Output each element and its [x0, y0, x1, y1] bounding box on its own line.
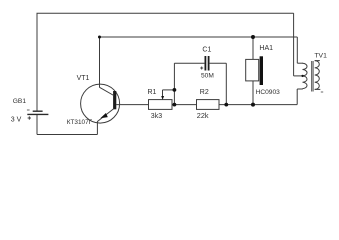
svg-text:GB1: GB1	[13, 98, 27, 105]
wire base to R1	[116, 104, 148, 106]
wire C1 branch right	[210, 62, 227, 64]
wire R1 to R2	[172, 104, 197, 106]
wire emitter vertical	[96, 121, 98, 134]
svg-text:R1: R1	[148, 89, 157, 96]
battery GB1	[27, 110, 49, 120]
secondary bottom stub	[315, 88, 321, 90]
wire second rail	[100, 36, 298, 38]
resistor R1	[149, 90, 173, 110]
resistor R2	[197, 100, 220, 110]
node HA1 top junction	[251, 35, 255, 39]
wire right drop from top rail	[293, 13, 295, 76]
earphone HA1	[246, 56, 263, 85]
secondary winding	[315, 61, 320, 90]
wire top rail	[37, 12, 294, 14]
R1 wiper arrow	[162, 90, 164, 97]
transistor VT1	[81, 84, 120, 123]
wire C1 branch left	[174, 62, 204, 64]
collector diagonal	[100, 87, 114, 95]
secondary polarity dash	[321, 91, 323, 93]
svg-text:КТ3107Г: КТ3107Г	[67, 119, 93, 126]
svg-text:50M: 50M	[201, 72, 214, 79]
transformer TV1	[303, 61, 324, 92]
svg-text:3 V: 3 V	[11, 116, 22, 123]
svg-text:HA1: HA1	[259, 45, 273, 52]
emitter arrow	[100, 113, 108, 118]
svg-text:TV1: TV1	[314, 52, 327, 59]
wire transformer top lead	[297, 62, 303, 64]
node wiper junction	[173, 88, 177, 92]
node transformer tap	[301, 75, 303, 77]
node collector-rail corner dot	[98, 36, 101, 39]
emitter diagonal	[97, 109, 113, 122]
wire transformer bottom lead	[297, 88, 303, 90]
secondary top stub	[315, 60, 320, 62]
svg-text:HC0903: HC0903	[256, 89, 281, 96]
svg-text:3k3: 3k3	[151, 113, 162, 120]
wire C1 right drop	[225, 63, 227, 104]
svg-text:VT1: VT1	[77, 75, 90, 82]
wire HA1 top lead	[252, 37, 254, 59]
svg-text:C1: C1	[202, 46, 211, 53]
node R1R2 junction	[173, 103, 177, 107]
wire right drop from second rail	[296, 37, 298, 63]
wire collector vertical	[99, 37, 101, 88]
node HA1 bottom junction	[251, 103, 255, 107]
wire battery bottom vertical	[36, 114, 38, 134]
svg-text:R2: R2	[200, 89, 209, 96]
wire HA1 bottom lead	[252, 81, 254, 105]
capacitor C1	[200, 56, 208, 71]
wire bottom rail	[37, 134, 97, 136]
core	[311, 61, 313, 92]
svg-text:22k: 22k	[197, 111, 209, 120]
C1 plus mark	[200, 67, 203, 69]
wire right riser to transformer bottom	[296, 89, 298, 105]
node C1 drop junction	[224, 103, 228, 107]
wire transformer middle tap lead	[294, 75, 303, 77]
wire vertical C1-left to R1R2 junction	[173, 63, 175, 104]
wire R2 to transformer	[219, 104, 297, 106]
wire battery top vertical	[36, 13, 38, 111]
primary winding	[303, 63, 308, 88]
wire R1 wiper horizontal	[163, 89, 175, 91]
